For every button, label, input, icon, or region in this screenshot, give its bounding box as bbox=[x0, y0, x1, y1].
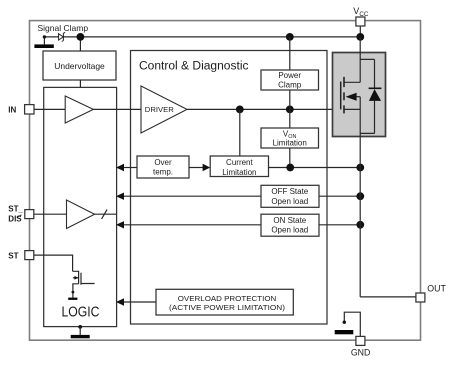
wire: current limitation to output rail bbox=[269, 167, 361, 169]
node: GND stub bbox=[343, 321, 346, 324]
wire: current limitation up to gate bbox=[239, 109, 241, 156]
wire: OUT line to pin bbox=[360, 296, 416, 298]
node: rail-undervoltage junction bbox=[77, 33, 85, 41]
node: sense wire to output line bbox=[356, 164, 364, 172]
svg-text:GND: GND bbox=[351, 347, 371, 357]
node: off state sense junction bbox=[356, 192, 364, 200]
wire: buffer to driver bbox=[93, 108, 141, 110]
svg-text:Signal Clamp: Signal Clamp bbox=[38, 23, 89, 33]
wire: rail to undervoltage bbox=[79, 37, 81, 51]
svg-text:ON State: ON State bbox=[273, 216, 306, 225]
wire: undervoltage to logic box bbox=[79, 80, 81, 87]
svg-text:ST: ST bbox=[8, 252, 18, 261]
svg-text:(ACTIVE POWER LIMITATION): (ACTIVE POWER LIMITATION) bbox=[169, 303, 286, 312]
svg-text:Limitation: Limitation bbox=[273, 139, 307, 148]
undervoltage block bbox=[43, 51, 116, 80]
svg-text:Over: Over bbox=[154, 158, 172, 167]
wire: rail to power clamp bbox=[289, 37, 291, 70]
svg-text:Clamp: Clamp bbox=[278, 81, 302, 90]
MOSFET Q1 channel segments bbox=[343, 77, 345, 114]
wire: overload protection to logic bbox=[124, 301, 156, 303]
wire: source stub to ground bbox=[72, 293, 74, 298]
wire: GND pin net bbox=[344, 312, 360, 336]
node: rail-power clamp junction bbox=[286, 33, 294, 41]
arrow into logic (on state open load) bbox=[116, 221, 124, 228]
wire: power clamp to Von limitation bbox=[289, 90, 291, 128]
zener diode (signal clamp) bbox=[59, 34, 64, 40]
on state open load block bbox=[261, 214, 319, 236]
svg-text:Undervoltage: Undervoltage bbox=[54, 61, 105, 71]
MOSFET Q1 drain stub bbox=[344, 81, 360, 83]
svg-text:Open load: Open load bbox=[271, 197, 308, 206]
wire: Von limitation down to out-sense rail bbox=[289, 148, 291, 168]
svg-text:Power: Power bbox=[278, 71, 301, 80]
logic block box bbox=[44, 87, 117, 326]
node: transistor source bbox=[72, 291, 75, 294]
control & diagnostic box bbox=[131, 51, 328, 325]
svg-text:ST_: ST_ bbox=[8, 205, 23, 214]
node: gate-power clamp junction bbox=[286, 106, 294, 114]
arrow into logic (off state open load) bbox=[116, 193, 124, 200]
pin ST bbox=[25, 251, 34, 260]
power MOSFET module (gray) bbox=[333, 53, 386, 137]
wire: over temp to logic bbox=[124, 167, 137, 169]
wire: off state open load to logic bbox=[124, 195, 261, 197]
body diode D1 bbox=[360, 59, 374, 133]
svg-text:Limitation: Limitation bbox=[222, 168, 256, 177]
MOSFET Q1 source stub bbox=[344, 108, 360, 110]
svg-text:DRIVER: DRIVER bbox=[145, 107, 174, 114]
wire: ST_DIS pin to status buffer bbox=[34, 213, 67, 215]
svg-text:IN: IN bbox=[8, 105, 16, 114]
ground bar (signal clamp) bbox=[34, 44, 53, 48]
wire: status buffer output bbox=[95, 213, 117, 215]
power clamp block bbox=[261, 70, 319, 90]
svg-text:Control & Diagnostic: Control & Diagnostic bbox=[139, 60, 249, 72]
wire: off state open load to output line bbox=[319, 195, 360, 197]
overload protection block bbox=[156, 289, 293, 315]
wire: logic box to ground bbox=[79, 327, 81, 335]
pin GND bbox=[356, 336, 365, 345]
wire: on state open load to output line bbox=[319, 224, 360, 226]
node: rail-ground junction bbox=[43, 35, 46, 38]
wire: gate line driver to MOSFET gate bbox=[187, 108, 341, 110]
chip boundary border bbox=[30, 21, 421, 341]
off state open load block bbox=[261, 185, 319, 207]
svg-text:Open load: Open load bbox=[271, 226, 308, 235]
ground bar (logic) bbox=[71, 335, 90, 338]
ground bar (GND pin) bbox=[335, 330, 354, 334]
transistor Q2 (ST open drain) bbox=[73, 271, 95, 292]
wire: stub to signal ground bbox=[43, 37, 45, 45]
bus slash bbox=[102, 210, 107, 219]
node: rail-VCC junction bbox=[356, 33, 364, 41]
wire: IN pin to input buffer bbox=[34, 108, 65, 110]
MOSFET Q1 substrate arrow bbox=[355, 96, 360, 98]
svg-text:OFF State: OFF State bbox=[271, 187, 308, 196]
buffer U1 (IN) bbox=[65, 96, 93, 123]
pin VCC bbox=[356, 17, 365, 26]
buffer U3 (ST_DIS) bbox=[67, 200, 95, 229]
svg-text:CC: CC bbox=[359, 11, 368, 18]
pin IN bbox=[25, 105, 34, 114]
wire: VCC stub down to rail bbox=[359, 26, 361, 37]
current limitation block bbox=[210, 156, 268, 177]
wire: ST pin to sense transistor bbox=[34, 255, 73, 271]
node: on state sense junction bbox=[356, 221, 364, 229]
ground bar (ST transistor) bbox=[68, 298, 77, 300]
wire: over temp to current limitation bbox=[189, 167, 203, 169]
pin OUT bbox=[416, 293, 425, 302]
node: Von junction on sense wire bbox=[286, 164, 294, 172]
Von limitation block bbox=[261, 128, 319, 148]
MOSFET Q1 gate bar bbox=[340, 82, 342, 110]
svg-text:LOGIC: LOGIC bbox=[62, 304, 100, 321]
wire: signal clamp rail bbox=[44, 36, 360, 38]
svg-text:Current: Current bbox=[226, 158, 253, 167]
over temperature block bbox=[137, 156, 189, 178]
svg-text:OUT: OUT bbox=[427, 284, 446, 294]
svg-text:OVERLOAD PROTECTION: OVERLOAD PROTECTION bbox=[178, 294, 277, 303]
arrow into logic (over temp) bbox=[116, 164, 124, 171]
wire: VCC trunk into MOSFET drain bbox=[359, 37, 361, 82]
wire: on state open load to logic bbox=[124, 224, 261, 226]
svg-text:temp.: temp. bbox=[153, 167, 173, 176]
driver U2 bbox=[141, 86, 187, 133]
pin ST_DIS bbox=[25, 210, 34, 219]
node: gate-current limitation junction bbox=[236, 106, 244, 114]
arrow into current limitation bbox=[203, 164, 211, 171]
wire: source trunk down to OUT bbox=[359, 97, 361, 297]
arrow into logic (overload protection) bbox=[116, 298, 124, 305]
node: logic ground junction bbox=[78, 325, 82, 329]
